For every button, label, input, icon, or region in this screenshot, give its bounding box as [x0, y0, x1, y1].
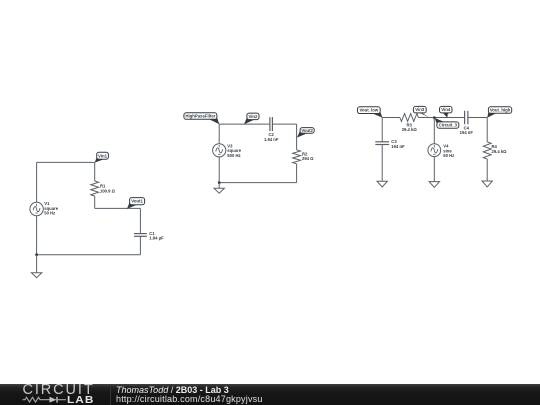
svg-text:Vout2: Vout2	[301, 128, 313, 133]
svg-text:Vout1: Vout1	[131, 199, 143, 204]
svg-text:194 nF: 194 nF	[460, 130, 474, 135]
svg-text:1.94 µF: 1.94 µF	[149, 236, 164, 241]
svg-text:29.4 kΩ: 29.4 kΩ	[492, 149, 508, 154]
svg-text:HighPassFilter: HighPassFilter	[185, 114, 215, 119]
svg-text:194 nF: 194 nF	[391, 144, 405, 149]
svg-text:Vin3: Vin3	[415, 107, 425, 112]
svg-text:29.4 kΩ: 29.4 kΩ	[402, 127, 418, 132]
svg-text:500 Hz: 500 Hz	[227, 153, 240, 158]
svg-text:1.94 nF: 1.94 nF	[264, 137, 279, 142]
svg-text:Vin4: Vin4	[441, 107, 451, 112]
svg-text:Vout_high: Vout_high	[490, 108, 511, 113]
svg-text:Vin1: Vin1	[98, 153, 108, 158]
svg-text:Vin2: Vin2	[248, 114, 258, 119]
svg-text:50 Hz: 50 Hz	[44, 211, 55, 216]
svg-text:100.9 Ω: 100.9 Ω	[100, 188, 116, 193]
svg-text:50 Hz: 50 Hz	[443, 153, 454, 158]
svg-text:Vout_low: Vout_low	[359, 108, 378, 113]
svg-text:294 Ω: 294 Ω	[302, 156, 314, 161]
svg-text:Circuit_3: Circuit_3	[439, 123, 458, 128]
